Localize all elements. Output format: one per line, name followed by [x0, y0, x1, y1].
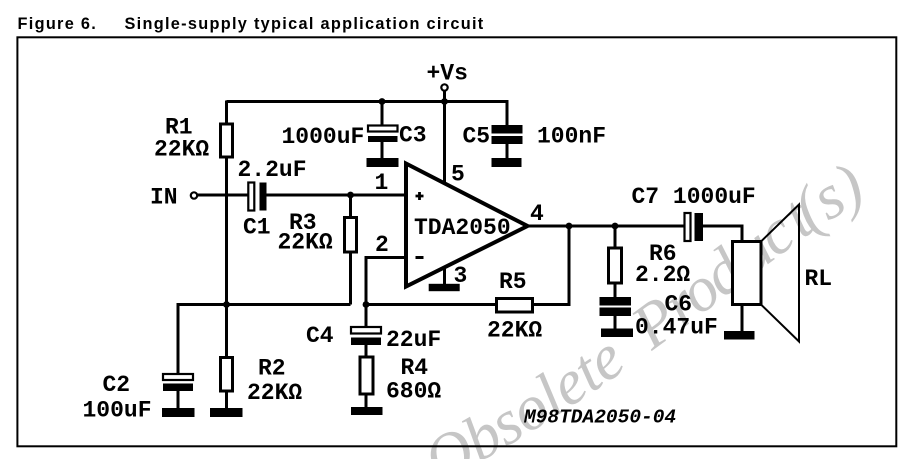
capacitor C7	[685, 213, 704, 241]
svg-text:R5: R5	[499, 269, 527, 295]
wire C2 to ground	[177, 391, 180, 408]
node IN terminal circle	[191, 192, 197, 198]
wire C4 to R4	[365, 345, 368, 357]
svg-text:C7 1000uF: C7 1000uF	[632, 184, 756, 210]
svg-text:0.47uF: 0.47uF	[635, 315, 718, 341]
wire R6 to C6	[614, 283, 617, 297]
wire feedback left	[366, 303, 497, 306]
junction output/R5	[566, 223, 573, 230]
wire R6 top	[614, 226, 617, 248]
wire C5 to ground	[506, 144, 509, 158]
ground R4	[351, 407, 383, 415]
svg-text:C3: C3	[399, 123, 427, 149]
wire output	[528, 225, 685, 228]
wire R3 bottom	[349, 252, 352, 305]
op-amp U1 TDA2050	[406, 164, 528, 287]
junction R1/R2 bias tap	[223, 301, 230, 308]
capacitor C4	[351, 327, 381, 345]
wire C6 to ground	[614, 316, 617, 329]
ground C5	[492, 158, 522, 167]
wire R1 bottom to bias line	[225, 157, 228, 305]
svg-text:4: 4	[530, 201, 544, 227]
svg-text:2.2uF: 2.2uF	[238, 157, 307, 183]
svg-text:5: 5	[451, 162, 465, 188]
ground R2	[210, 408, 243, 417]
capacitor C3	[368, 126, 398, 143]
svg-text:1000uF: 1000uF	[282, 124, 365, 150]
wire C4 top	[365, 305, 368, 328]
wire C7 to speaker	[703, 226, 742, 242]
capacitor C2	[163, 374, 193, 391]
ground pin3	[429, 284, 460, 291]
wire C1 to pin1	[267, 194, 407, 197]
resistor R6	[609, 248, 622, 283]
svg-text:100nF: 100nF	[537, 124, 606, 150]
wire speaker to ground	[741, 305, 744, 332]
svg-text:22KΩ: 22KΩ	[278, 230, 333, 256]
capacitor C5	[492, 125, 523, 144]
wire R2 top	[225, 305, 228, 358]
resistor R2	[221, 358, 233, 392]
svg-text:680Ω: 680Ω	[386, 379, 441, 405]
junction pin2/C4/R5	[363, 301, 370, 308]
ground C3	[367, 158, 399, 167]
svg-text:C4: C4	[306, 323, 334, 349]
resistor R5	[497, 299, 533, 313]
wire +Vs drop to pin5	[443, 91, 446, 183]
junction C1/R3/pin1	[347, 192, 354, 199]
speaker RL horn	[761, 205, 799, 342]
wire R3 top	[349, 195, 352, 218]
wire C2 drop	[177, 303, 180, 374]
resistor R1	[221, 124, 233, 157]
junction C3/rail	[379, 98, 386, 105]
svg-text:1: 1	[375, 170, 389, 196]
wire bias line	[178, 303, 351, 306]
svg-text:R2: R2	[258, 356, 286, 382]
svg-text:RL: RL	[805, 266, 833, 292]
ground speaker	[724, 331, 755, 340]
svg-text:Single-supply typical applicat: Single-supply typical application circui…	[125, 15, 485, 33]
svg-text:R4: R4	[401, 355, 429, 381]
wire top supply rail	[227, 100, 509, 103]
svg-text:C5: C5	[463, 124, 491, 150]
svg-text:C2: C2	[103, 372, 131, 398]
svg-text:2: 2	[375, 232, 389, 258]
node +Vs terminal circle	[441, 84, 447, 90]
svg-text:Figure 6.: Figure 6.	[18, 15, 98, 33]
ground C6	[601, 329, 633, 338]
op-amp - input marker	[416, 256, 424, 259]
capacitor C6	[600, 297, 632, 316]
junction +Vs/rail	[441, 98, 448, 105]
wire C5 drop	[506, 100, 509, 125]
svg-text:C1: C1	[243, 215, 271, 241]
ground C2	[162, 408, 195, 417]
svg-text:2.2Ω: 2.2Ω	[635, 262, 690, 288]
wire R2 to ground	[225, 391, 228, 408]
svg-text:IN: IN	[150, 185, 178, 211]
svg-text:+Vs: +Vs	[427, 61, 468, 87]
speaker RL body	[733, 242, 762, 305]
svg-text:22KΩ: 22KΩ	[247, 380, 302, 406]
resistor R3	[345, 218, 357, 253]
svg-text:22KΩ: 22KΩ	[154, 137, 209, 163]
wire pin2	[366, 258, 406, 305]
wire R1 top	[225, 101, 228, 125]
svg-text:M98TDA2050-04: M98TDA2050-04	[523, 407, 676, 429]
resistor R4	[360, 357, 373, 394]
wire C3 top	[381, 102, 384, 126]
wire pin3	[443, 268, 446, 284]
svg-text:22KΩ: 22KΩ	[487, 318, 542, 344]
capacitor C1	[248, 183, 266, 211]
wire feedback right	[533, 226, 570, 305]
wire IN to C1	[197, 194, 248, 197]
wire C3 to ground	[381, 142, 384, 158]
op-amp + input marker	[416, 192, 424, 200]
svg-text:TDA2050: TDA2050	[414, 215, 511, 241]
svg-text:100uF: 100uF	[83, 398, 152, 424]
wire R4 to ground	[365, 394, 368, 407]
junction output/R6	[612, 223, 619, 230]
svg-text:22uF: 22uF	[386, 327, 441, 353]
